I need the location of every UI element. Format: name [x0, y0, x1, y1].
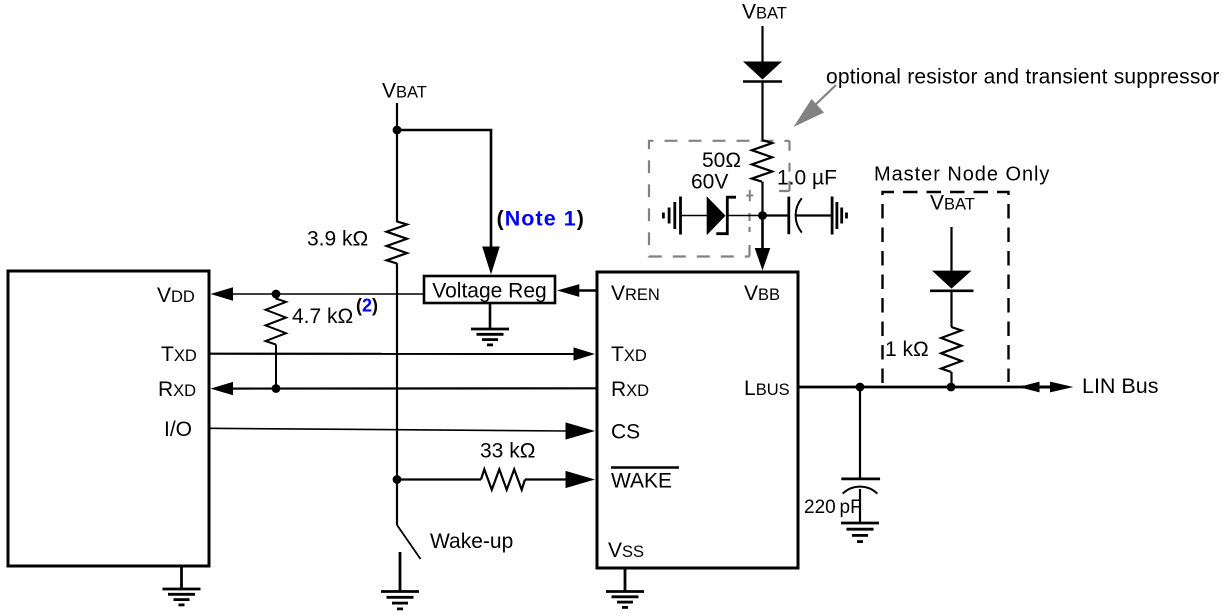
voltage regulator block — [424, 276, 555, 303]
svg-text:VBAT: VBAT — [930, 192, 975, 215]
polarity + (gray) — [746, 190, 753, 201]
annotation arrow (gray) — [814, 85, 836, 106]
wire I/O to CS — [209, 428, 568, 431]
arrow RXD into MCU — [211, 382, 234, 395]
svg-text:VBAT: VBAT — [382, 80, 427, 103]
node junction VDD/pullup — [272, 290, 281, 299]
optional box right edge dashes — [788, 141, 790, 191]
arrow CS — [566, 422, 596, 439]
LIN bus double arrow — [1022, 386, 1052, 389]
wire VREN to Voltage Reg — [578, 289, 597, 292]
wire cap to ground — [859, 489, 861, 523]
ground (voltage reg) — [489, 303, 492, 329]
switch contact stem — [399, 552, 402, 592]
wire VBAT rail top — [396, 103, 398, 222]
wire VBAT top — [761, 26, 763, 62]
wire RXD — [231, 387, 597, 390]
resistor R 3.9k — [387, 221, 407, 263]
svg-text:(2): (2) — [356, 296, 378, 316]
wire VDD from Voltage Reg — [229, 293, 424, 295]
node junction VBAT/Note1 — [393, 126, 402, 135]
wire to 220pF — [859, 387, 861, 479]
svg-text:220 pF: 220 pF — [804, 497, 862, 518]
diode D1 (reverse battery) — [743, 62, 782, 80]
wire VBAT to Note1 arrow — [397, 130, 491, 247]
node junction wake — [393, 475, 402, 484]
ground (zener, rotated) — [679, 197, 682, 235]
svg-text:50Ω: 50Ω — [702, 149, 741, 172]
svg-text:4.7 kΩ: 4.7 kΩ — [292, 305, 353, 328]
svg-text:LIN Bus: LIN Bus — [1082, 374, 1158, 398]
wire VBAT rail lower — [396, 263, 398, 525]
wire node to cap — [763, 214, 789, 216]
wire TXD — [209, 353, 575, 355]
svg-text:1.0 µF: 1.0 µF — [777, 167, 837, 190]
node junction RXD/pullup — [272, 384, 281, 393]
svg-text:Master Node Only: Master Node Only — [874, 164, 1050, 186]
arrow WAKE — [566, 471, 596, 488]
svg-text:VBB: VBB — [744, 282, 780, 305]
node junction 1k/LIN — [947, 383, 956, 392]
ground (VSS) — [624, 568, 627, 592]
resistor R 33k — [481, 469, 525, 489]
svg-text:VSS: VSS — [608, 539, 644, 562]
svg-text:60V: 60V — [691, 171, 728, 194]
wire VBAT master — [950, 227, 952, 271]
wire gnd to zener — [681, 215, 708, 217]
optional network dashed box (gray) — [649, 141, 790, 257]
svg-text:LBUS: LBUS — [744, 377, 790, 400]
MCU block U1 — [8, 271, 209, 566]
svg-text:TXD: TXD — [161, 343, 197, 366]
wire zener to node — [727, 215, 763, 217]
resistor R 50 — [752, 140, 772, 182]
arrow into Voltage Reg (Note 1) — [482, 247, 500, 275]
wire LBUS — [798, 386, 1022, 389]
arrow TXD into transceiver — [574, 347, 596, 360]
diode D3 (master) — [932, 271, 972, 289]
ground (MCU) — [180, 566, 183, 589]
svg-text:3.9 kΩ: 3.9 kΩ — [307, 228, 368, 251]
svg-text:1 kΩ: 1 kΩ — [885, 338, 929, 361]
arrow into VDD — [211, 287, 234, 300]
ground (cap, rotated) — [831, 197, 834, 235]
ground (wake switch) — [381, 590, 419, 593]
master node dashed box — [883, 192, 1009, 383]
ground (220pF) — [841, 522, 879, 525]
svg-text:RXD: RXD — [611, 378, 649, 401]
wire 33k to WAKE — [525, 478, 568, 480]
wire resistor to node — [761, 182, 763, 216]
svg-text:Wake-up: Wake-up — [430, 530, 513, 553]
capacitor C1 1.0uF — [787, 197, 790, 235]
wire cap to gnd — [797, 214, 833, 216]
svg-text:TXD: TXD — [611, 343, 647, 366]
arrow into Voltage Reg right — [557, 284, 579, 297]
node junction suppressor — [758, 211, 767, 220]
pin WAKE label with overline — [611, 466, 679, 468]
wire diode to 1k — [950, 291, 952, 327]
svg-text:I/O: I/O — [164, 418, 192, 441]
svg-text:RXD: RXD — [158, 378, 196, 401]
arrow into VBB — [755, 248, 771, 271]
wire diode to resistor — [761, 82, 763, 143]
transceiver block U2 — [597, 272, 798, 568]
svg-text:Voltage Reg: Voltage Reg — [432, 280, 546, 303]
switch blade Wake-up — [397, 525, 421, 559]
svg-text:WAKE: WAKE — [611, 470, 672, 493]
svg-text:VDD: VDD — [157, 284, 195, 307]
svg-text:CS: CS — [611, 421, 640, 444]
wire WAKE from rail — [397, 478, 481, 480]
resistor R 1k — [941, 327, 961, 372]
wire node to VBB arrow — [761, 216, 764, 250]
svg-text:VREN: VREN — [611, 282, 660, 305]
svg-text:VBAT: VBAT — [742, 1, 787, 24]
zener diode D2 60V — [707, 196, 726, 235]
svg-text:optional resistor and transien: optional resistor and transient suppress… — [826, 66, 1220, 89]
node junction 220pF — [856, 383, 865, 392]
svg-text:(Note 1): (Note 1) — [497, 206, 585, 230]
svg-text:33 kΩ: 33 kΩ — [480, 440, 535, 463]
wire 1k to LIN — [950, 372, 952, 387]
resistor R 4.7k pull-up — [275, 294, 277, 299]
capacitor C2 220pF — [841, 477, 880, 480]
